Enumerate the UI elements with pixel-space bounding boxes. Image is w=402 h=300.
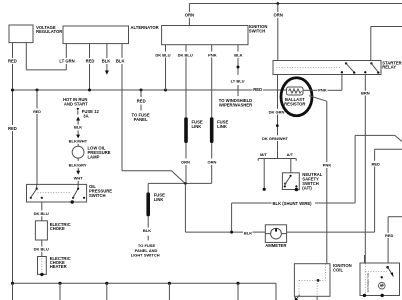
svg-text:BLK: BLK [234,52,242,57]
svg-text:PANEL: PANEL [134,117,148,122]
svg-text:RESISTOR: RESISTOR [284,102,305,107]
svg-text:BLK: BLK [74,125,82,130]
svg-text:AND START: AND START [64,102,88,107]
svg-text:LINK: LINK [192,124,202,129]
svg-text:(A/T): (A/T) [302,185,312,190]
svg-text:HEATER: HEATER [50,264,67,269]
svg-text:WHT: WHT [74,176,84,181]
svg-text:BLK/GRY: BLK/GRY [69,162,87,167]
svg-text:WIPER/WASHER: WIPER/WASHER [219,103,252,108]
svg-text:DK GRN/WHT: DK GRN/WHT [262,136,289,141]
svg-text:DK GRN: DK GRN [269,109,285,114]
svg-text:BLK: BLK [244,231,252,236]
svg-text:RELAY: RELAY [382,65,396,70]
svg-text:BLK (SHUNT WIRE): BLK (SHUNT WIRE) [273,201,313,206]
svg-text:DK BLU: DK BLU [178,52,193,57]
svg-text:PNK: PNK [318,88,327,93]
svg-text:ORN: ORN [208,160,217,165]
svg-text:RED: RED [253,87,262,92]
svg-text:PNK: PNK [323,162,332,167]
svg-text:RED: RED [385,233,394,238]
svg-text:ALTERNATOR: ALTERNATOR [131,25,159,30]
svg-text:3A: 3A [83,113,88,118]
svg-text:LT GRN: LT GRN [59,58,74,63]
svg-text:SWITCH: SWITCH [89,193,106,198]
svg-text:ORN: ORN [274,13,283,18]
svg-text:LAMP: LAMP [88,154,100,159]
svg-text:LINK: LINK [217,124,227,129]
svg-text:DK BLU: DK BLU [34,246,49,251]
svg-text:BLK: BLK [102,58,111,63]
svg-text:ORN: ORN [181,160,190,165]
svg-text:M/T: M/T [260,152,267,157]
svg-text:DK BLU: DK BLU [34,211,49,216]
svg-text:BRN: BRN [361,90,370,95]
svg-text:DK BLU: DK BLU [155,52,170,57]
svg-text:RED: RED [371,161,380,166]
svg-text:COIL: COIL [333,267,343,272]
svg-text:RED: RED [8,126,17,131]
svg-text:LIGHT SWITCH: LIGHT SWITCH [131,252,160,257]
svg-text:SWITCH: SWITCH [249,28,266,33]
svg-text:CHOKE: CHOKE [50,226,65,231]
svg-text:DISTRIBUTOR: DISTRIBUTOR [366,273,370,292]
svg-text:REGULATOR: REGULATOR [36,29,62,34]
svg-text:LINK: LINK [154,197,164,202]
svg-text:RED: RED [33,110,41,114]
svg-text:LT BLU: LT BLU [231,78,245,83]
svg-text:PNK: PNK [208,52,217,57]
svg-text:A/T: A/T [287,152,294,157]
svg-text:RED: RED [8,58,17,63]
svg-text:AMMETER: AMMETER [265,243,286,248]
svg-text:BLK: BLK [116,58,125,63]
svg-text:BLK/WHT: BLK/WHT [69,139,88,144]
svg-text:RED: RED [137,99,146,104]
svg-text:ORN: ORN [185,13,194,18]
svg-text:RED: RED [86,58,95,63]
svg-text:BLK: BLK [143,228,151,233]
